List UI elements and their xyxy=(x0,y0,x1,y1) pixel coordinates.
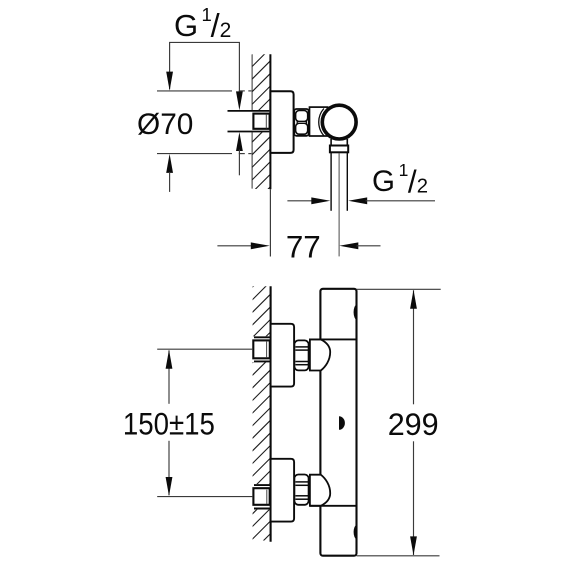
thermostat body xyxy=(320,289,356,556)
dimension 299 line and arrows xyxy=(413,290,415,404)
blanking behind lower pipe socket xyxy=(252,484,270,510)
blanking behind upper pipe socket xyxy=(252,336,270,362)
union hex nut (top view) xyxy=(294,109,309,136)
svg-text:1: 1 xyxy=(399,160,409,180)
G 1/2 pipe lower arrow xyxy=(236,132,243,151)
shower hose outline xyxy=(330,153,332,211)
lower body part line xyxy=(310,505,357,507)
svg-text:/: / xyxy=(408,163,417,199)
svg-text:77: 77 xyxy=(286,230,321,265)
dimension extension line B (flange bottom) xyxy=(157,153,232,155)
upper escutcheon xyxy=(271,324,295,387)
wall face line (bottom view) xyxy=(270,286,272,541)
blanking behind pipe socket (top view) xyxy=(252,110,270,132)
svg-text:Ø70: Ø70 xyxy=(137,108,193,141)
dimension 150±15 extension lines xyxy=(157,348,253,350)
hose collar nut xyxy=(330,146,348,153)
hose centerline xyxy=(338,153,340,257)
pipe socket square xyxy=(253,114,269,129)
lower pipe socket square xyxy=(253,488,269,505)
valve inlet connector xyxy=(310,107,328,136)
svg-text:2: 2 xyxy=(417,175,428,197)
dimension extension line A (flange top) xyxy=(157,90,232,92)
dimension bracket G 1/2 (top label) xyxy=(170,42,240,92)
outlet neck xyxy=(330,139,332,146)
svg-text:G: G xyxy=(372,165,395,198)
upper inlet pipe lines xyxy=(254,336,271,338)
rear cylinder arc xyxy=(319,109,324,136)
upper pipe socket square xyxy=(253,340,269,358)
svg-text:299: 299 xyxy=(388,406,439,442)
hose thread dimension G 1/2 xyxy=(287,200,313,202)
upper inlet horn xyxy=(310,339,330,370)
lower inlet pipe lines xyxy=(254,484,271,486)
dimension 299 extension lines xyxy=(357,288,441,290)
wall left boundary (top view) xyxy=(251,55,253,189)
upper union hex nut xyxy=(294,340,308,370)
wall hatching (top view) xyxy=(246,30,276,211)
svg-text:2: 2 xyxy=(220,19,232,42)
svg-text:150±15: 150±15 xyxy=(123,406,215,442)
upper body part line xyxy=(310,338,357,340)
wall flange (escutcheon, top view) xyxy=(270,91,293,153)
valve body circle xyxy=(322,105,356,139)
wall face line (top view) xyxy=(269,54,271,189)
dimension 150±15 line and arrows xyxy=(168,350,170,403)
wall hatching (bottom view) xyxy=(247,263,277,558)
supply pipe in wall xyxy=(228,110,270,112)
Ø70 lower arrow xyxy=(166,154,173,173)
lower union hex nut xyxy=(294,475,308,505)
svg-text:G: G xyxy=(174,8,198,43)
upper fixing screw xyxy=(354,305,357,320)
dimension 77 xyxy=(217,245,252,247)
temperature knob button xyxy=(339,416,345,430)
lower fixing screw xyxy=(354,525,357,539)
lower inlet horn xyxy=(310,475,330,506)
lower escutcheon xyxy=(271,459,295,522)
